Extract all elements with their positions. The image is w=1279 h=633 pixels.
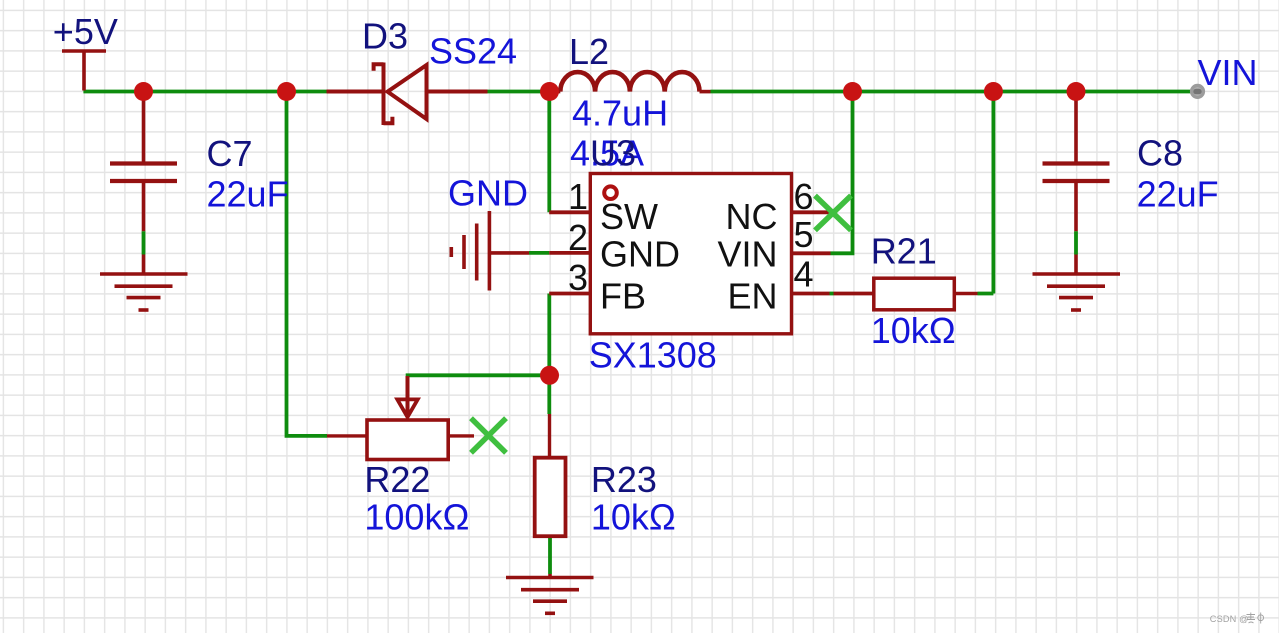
watermark CSDN [1210, 614, 1249, 624]
potentiometer R22 body and leads [327, 434, 367, 437]
resistor R23 body and top lead [548, 414, 551, 458]
no-connect X flag on pin6 NC [815, 196, 851, 231]
svg-text:C7: C7 [207, 133, 253, 174]
capacitor C7 [110, 99, 177, 273]
wire C7 to ground segment [142, 231, 146, 254]
svg-text:100kΩ: 100kΩ [364, 497, 469, 538]
inductor L2 [550, 72, 711, 92]
wire rail junction down-left to pin5 VIN [831, 93, 853, 253]
junction node SW (D3/L2/pin1) [540, 82, 559, 101]
svg-text:22uF: 22uF [207, 173, 289, 214]
junction node rail/R21 branch [984, 82, 1003, 101]
svg-text:L2: L2 [569, 31, 609, 72]
svg-text:6: 6 [794, 176, 814, 217]
ground under C8 [1033, 274, 1121, 310]
junction node rail/C7 [134, 82, 153, 101]
ground power symbol GND (rotated) [451, 211, 529, 291]
wire rail junction down to R22 left terminal [287, 93, 328, 436]
IC U3 pin stubs 1,2,3,6,5,4 [549, 212, 874, 293]
svg-text:C8: C8 [1137, 132, 1183, 173]
wire C8 to ground segment [1074, 231, 1078, 254]
svg-text:3: 3 [568, 257, 588, 298]
svg-text:SW: SW [600, 196, 658, 237]
junction node rail/pin5 VIN branch [843, 82, 862, 101]
wire L2 to VIN port (net VIN) [711, 90, 1191, 94]
svg-text:VIN: VIN [717, 234, 777, 275]
svg-text:GND: GND [600, 234, 680, 275]
potentiometer R22 wiper arrow [397, 376, 417, 417]
wire D3 cathode junction to L2 [488, 90, 551, 94]
IC U3 SX1308 body [590, 174, 791, 334]
svg-text:VIN: VIN [1198, 52, 1258, 93]
junction node FB (R22 wiper/R23) [540, 366, 559, 385]
svg-text:D3: D3 [362, 15, 408, 56]
IC U3 pin 1 indicator circle [604, 186, 617, 199]
svg-text:10kΩ: 10kΩ [871, 310, 956, 351]
svg-text:NC: NC [726, 196, 778, 237]
diode D3 [327, 63, 488, 126]
svg-text:R23: R23 [591, 459, 657, 500]
port VIN terminal dot [1190, 84, 1205, 99]
wire R23 bottom to ground [548, 538, 552, 575]
svg-text:EN: EN [727, 276, 777, 317]
wire SW node down to pin1 [547, 93, 551, 212]
IC U3 pin numbers 1-6 [568, 176, 814, 298]
svg-text:10kΩ: 10kΩ [591, 497, 676, 538]
svg-text:1: 1 [568, 176, 588, 217]
svg-text:U3: U3 [590, 133, 636, 174]
svg-text:GND: GND [448, 173, 528, 214]
IC U3 pin names SW GND FB NC VIN EN [600, 196, 778, 317]
no-connect X flag on R22 right terminal [471, 418, 506, 453]
wire R21 right terminal up to rail [978, 93, 994, 294]
svg-text:R22: R22 [364, 459, 430, 500]
svg-text:+5V: +5V [53, 11, 118, 52]
svg-text:4.7uH: 4.7uH [572, 93, 668, 134]
svg-text:2: 2 [568, 217, 588, 258]
wire pin4 EN short segment [830, 292, 834, 296]
capacitor C8 [1043, 99, 1110, 273]
svg-text:SS24: SS24 [429, 31, 517, 72]
ground under R23 [506, 574, 594, 613]
svg-text:4: 4 [794, 254, 814, 295]
junction node rail/R22 branch [277, 82, 296, 101]
svg-text:R21: R21 [871, 231, 937, 272]
wire ground symbol to pin2 GND [529, 251, 549, 255]
svg-text:CSDN @: CSDN @ [1210, 614, 1249, 624]
power symbol +5V bar [62, 51, 106, 91]
svg-text:22uF: 22uF [1137, 173, 1219, 214]
ground under C7 [100, 274, 188, 310]
svg-text:5: 5 [794, 214, 814, 255]
junction node rail/C8 [1067, 82, 1086, 101]
resistor R21 body and left/right leads [954, 292, 977, 295]
svg-text:SX1308: SX1308 [589, 335, 717, 376]
svg-text:FB: FB [600, 276, 646, 317]
wire +5V rail left segment [83, 90, 326, 94]
wire pin3 FB down to node FB [547, 294, 551, 415]
wire R22 wiper to node FB [406, 373, 550, 377]
